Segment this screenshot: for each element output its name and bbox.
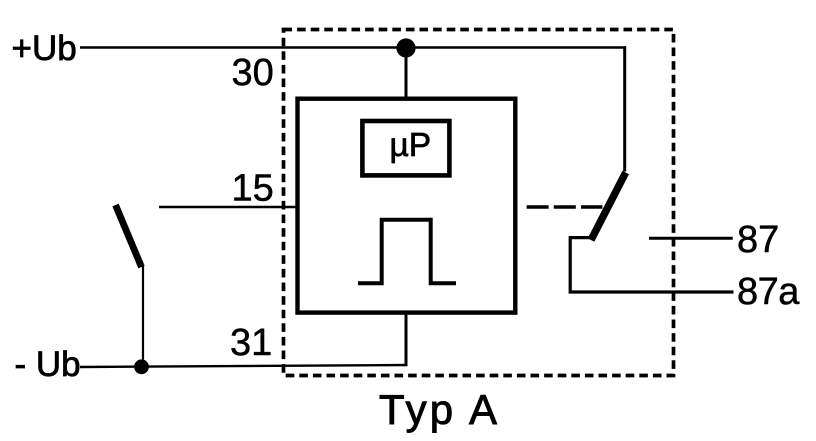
svg-text:+Ub: +Ub [12, 29, 77, 68]
svg-text:15: 15 [232, 168, 274, 210]
svg-text:31: 31 [230, 322, 272, 364]
svg-text:30: 30 [232, 52, 274, 94]
svg-text:- Ub: - Ub [15, 345, 81, 384]
svg-text:Typ A: Typ A [379, 386, 497, 433]
svg-text:µP: µP [390, 127, 432, 164]
svg-text:87: 87 [737, 219, 779, 261]
svg-text:87a: 87a [737, 271, 800, 313]
